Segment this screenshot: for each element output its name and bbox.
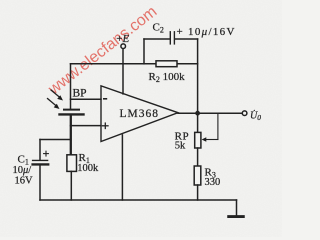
svg-text:10μ/: 10μ/ xyxy=(13,165,32,176)
svg-text:+ 10μ/16V: + 10μ/16V xyxy=(177,26,236,38)
wire C2 top-left horizontal xyxy=(144,38,170,40)
svg-text:330: 330 xyxy=(205,177,221,188)
node output junction dot xyxy=(195,111,200,116)
wire top rail left segment xyxy=(71,63,157,65)
resistor R3 body xyxy=(194,166,201,185)
op-amp plus marker xyxy=(103,123,108,128)
resistor R1 body xyxy=(67,155,77,172)
terminal Uo circle xyxy=(242,111,247,116)
svg-text:+E: +E xyxy=(116,33,129,45)
wire bottom ground rail xyxy=(40,199,237,201)
wire R1 bottom lead xyxy=(70,171,72,200)
terminal +E circle xyxy=(121,44,126,49)
svg-text:LM368: LM368 xyxy=(120,108,160,120)
wire right vertical C2/R2 to output node and RP xyxy=(197,39,199,132)
wire RP wiper horizontal xyxy=(206,139,218,141)
photocell BP plates xyxy=(60,110,84,115)
wire top rail right segment xyxy=(177,63,198,65)
wire R3 bottom lead xyxy=(197,185,199,200)
svg-text:100k: 100k xyxy=(77,163,99,174)
svg-text:16V: 16V xyxy=(15,175,34,186)
ground stub xyxy=(236,200,238,215)
svg-text:BP: BP xyxy=(73,87,87,99)
wire op-amp bottom terminal to ground rail xyxy=(121,135,123,200)
wire inverting input xyxy=(71,98,102,100)
wire C1 top horizontal xyxy=(40,139,71,141)
capacitor C1 plates xyxy=(33,160,49,164)
wire RP wiper vertical up to output xyxy=(217,113,219,139)
op-amp U1 LM368 triangle xyxy=(101,86,178,142)
light arrow 2 into BP xyxy=(48,99,60,110)
wire C1 bottom vertical xyxy=(39,165,41,200)
ground bar xyxy=(229,215,244,218)
potentiometer RP body xyxy=(195,132,201,148)
op-amp minus marker xyxy=(104,98,107,100)
wire BP top vertical xyxy=(70,64,72,109)
wire +E vertical to op-amp top edge xyxy=(122,49,124,94)
wire non-inverting input xyxy=(71,125,102,127)
wire C1 top vertical xyxy=(39,140,41,160)
wire output xyxy=(178,112,242,114)
wire BP bottom thick vertical to R1 xyxy=(70,115,72,154)
wire C2 top-right horizontal xyxy=(175,38,198,40)
wire RP to R3 xyxy=(197,148,199,166)
resistor R2 body xyxy=(156,61,177,67)
potentiometer RP wiper arrow xyxy=(202,137,207,141)
svg-text:R2 100k: R2 100k xyxy=(149,71,186,84)
capacitor C1 polarity plus xyxy=(44,151,49,156)
wire C2 left vertical xyxy=(143,39,145,64)
svg-text:5k: 5k xyxy=(175,141,186,152)
light arrow 1 into BP xyxy=(51,90,63,101)
capacitor C2 plates xyxy=(170,32,174,44)
